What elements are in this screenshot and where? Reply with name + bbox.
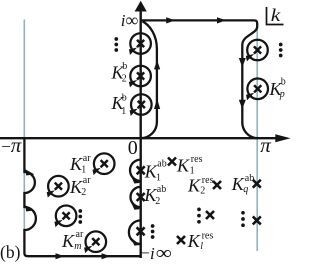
svg-text:res: res bbox=[202, 230, 214, 241]
arrow on axis bulge 1 bbox=[131, 175, 141, 183]
svg-text:ab: ab bbox=[157, 184, 166, 195]
svg-text:K: K bbox=[176, 155, 190, 175]
svg-text:b: b bbox=[122, 61, 127, 72]
svg-text:−π: −π bbox=[1, 133, 22, 157]
contour: top horizontal run at i-infinity bbox=[141, 20, 258, 138]
contour: quarter turn from origin to vertical run right of imaginary axis bbox=[141, 21, 157, 138]
svg-text:b: b bbox=[281, 76, 286, 87]
pole circle Kpb bbox=[246, 79, 268, 101]
svg-text:K: K bbox=[187, 231, 201, 251]
svg-text:∞: ∞ bbox=[156, 243, 172, 264]
contour bulge around K1ab on imaginary axis bbox=[130, 160, 141, 181]
svg-text:k: k bbox=[271, 5, 282, 25]
contour along Re k = -pi with bulges, then bottom run to -i inf bbox=[24, 138, 140, 256]
svg-text:1: 1 bbox=[156, 172, 161, 183]
pole circle K2ar bbox=[47, 176, 69, 198]
svg-text:2: 2 bbox=[155, 196, 160, 207]
real axis bbox=[0, 137, 277, 139]
branch line at -pi (light blue) bbox=[23, 20, 25, 251]
right arrow on bottom run 1 bbox=[56, 253, 65, 259]
svg-text:2: 2 bbox=[200, 185, 205, 196]
dots right of lower-left circle 3 bbox=[78, 209, 82, 224]
arrow on axis bulge 2 bbox=[131, 201, 141, 209]
down arrow on right contour (lower) bbox=[239, 100, 246, 109]
svg-text:l: l bbox=[200, 241, 203, 252]
imaginary axis bbox=[139, 11, 141, 259]
branch line at +pi (light blue) bbox=[256, 21, 258, 251]
right arrow on bottom run 2 bbox=[102, 253, 111, 259]
x mark K2res bbox=[213, 181, 221, 189]
real axis arrowhead bbox=[275, 134, 290, 142]
svg-text:b: b bbox=[122, 92, 127, 103]
svg-text:(b): (b) bbox=[0, 242, 21, 262]
svg-text:p: p bbox=[279, 89, 285, 100]
svg-text:−: − bbox=[140, 243, 150, 262]
x mark K2ab on axis bbox=[137, 193, 145, 201]
imaginary axis arrowhead bbox=[135, 1, 147, 12]
svg-text:i: i bbox=[150, 244, 155, 263]
arrow on -pi bulge 2 bbox=[25, 205, 34, 211]
label k with corner bbox=[267, 7, 284, 25]
arrow on -pi bulge 1 bbox=[25, 169, 34, 175]
pole circle K1ar bbox=[93, 153, 115, 175]
dots near pi line lower bbox=[241, 211, 245, 227]
svg-text:m: m bbox=[74, 241, 81, 252]
arrow on axis bulge 3 bbox=[131, 237, 141, 245]
up arrow on contour (upper) bbox=[154, 60, 160, 69]
contour bulge around K2ab on imaginary axis bbox=[131, 187, 141, 207]
svg-text:2: 2 bbox=[122, 73, 127, 84]
svg-text:ab: ab bbox=[245, 173, 254, 184]
x mark Kqab on pi line bbox=[253, 180, 261, 188]
pole circle K2b bbox=[129, 66, 151, 88]
pole circle Kmar bbox=[84, 231, 106, 253]
pole circle (dots) lower left bbox=[54, 206, 76, 228]
svg-text:res: res bbox=[202, 175, 214, 186]
svg-text:0: 0 bbox=[128, 137, 138, 159]
x mark on pi line lower bbox=[253, 216, 261, 224]
down arrow on right contour (upper) bbox=[239, 58, 246, 67]
svg-text:ar: ar bbox=[76, 229, 84, 240]
svg-text:ab: ab bbox=[157, 158, 166, 169]
svg-text:K: K bbox=[61, 231, 75, 251]
x mark Klres bbox=[177, 236, 185, 244]
up arrow on contour (lower) bbox=[154, 99, 160, 109]
svg-text:res: res bbox=[191, 154, 203, 165]
svg-text:1: 1 bbox=[121, 106, 126, 117]
dots right of axis x mark 3 bbox=[151, 224, 155, 239]
dots left of top axis circle bbox=[114, 37, 118, 52]
x mark below K2res bbox=[206, 211, 214, 219]
right arrow on top contour bbox=[166, 17, 175, 23]
pole circle K1b bbox=[130, 94, 152, 116]
contour bulge around pole on imaginary axis (3rd) bbox=[129, 220, 141, 244]
pole circle top of imaginary axis (unlabeled) bbox=[129, 33, 151, 55]
dots lower right quadrant middle bbox=[197, 208, 201, 224]
right arrow on top contour (second) bbox=[217, 17, 226, 23]
pole circle top of pi line (unlabeled) bbox=[246, 40, 268, 62]
x mark K1res bbox=[168, 158, 176, 166]
x mark 3rd on axis bbox=[137, 227, 145, 235]
x mark K1ab on axis bbox=[137, 166, 145, 174]
svg-text:π: π bbox=[260, 133, 271, 157]
svg-text:ar: ar bbox=[83, 153, 91, 164]
svg-text:2: 2 bbox=[81, 187, 86, 198]
svg-text:K: K bbox=[187, 175, 201, 195]
svg-text:q: q bbox=[243, 184, 248, 195]
svg-text:i∞: i∞ bbox=[121, 10, 139, 30]
svg-text:ar: ar bbox=[83, 175, 91, 186]
svg-text:1: 1 bbox=[81, 164, 86, 175]
dots right of top pi circle bbox=[279, 43, 283, 58]
